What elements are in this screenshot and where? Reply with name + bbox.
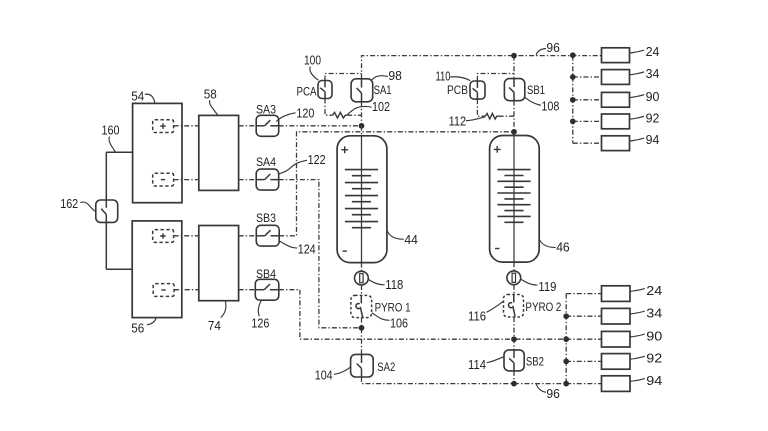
junction bottom SB2 — [511, 381, 517, 387]
wire row1 54+ to 58 — [174, 125, 199, 127]
wire — [105, 214, 107, 269]
wire battery 44 to sensor 118 — [361, 263, 363, 272]
label 54 — [145, 94, 155, 103]
svg-text:74: 74 — [208, 319, 221, 333]
wire node to battery 44 — [361, 126, 363, 136]
wire PYRO 1 to SA2 — [361, 318, 363, 355]
svg-text:160: 160 — [102, 124, 120, 138]
label 119 — [521, 279, 538, 285]
junction bottom manifold — [563, 381, 569, 387]
label 90 top — [630, 95, 645, 98]
switch SA4 — [256, 169, 279, 190]
fuse 102 — [333, 112, 348, 118]
label 110 — [450, 77, 470, 81]
label 118 — [368, 279, 384, 284]
junction top manifold — [570, 97, 576, 103]
label 98 — [372, 76, 388, 80]
label 108 — [525, 98, 541, 106]
svg-text:44: 44 — [404, 233, 418, 247]
box 58 — [199, 115, 239, 190]
svg-text:98: 98 — [388, 69, 402, 83]
switch SA3 — [256, 115, 279, 136]
svg-text:124: 124 — [298, 242, 316, 256]
svg-text:54: 54 — [131, 89, 144, 103]
svg-text:162: 162 — [60, 197, 78, 211]
label 100 — [310, 67, 319, 81]
junction row2 node — [359, 325, 365, 331]
label 46 — [539, 238, 556, 247]
wire PCA bottom lead — [325, 99, 333, 116]
wire row4 56- to 74 — [174, 289, 199, 291]
load box 34 top — [602, 70, 630, 85]
svg-text:114: 114 — [468, 358, 486, 372]
svg-text:108: 108 — [541, 99, 559, 113]
wire branch to load 24 bottom — [566, 293, 601, 295]
switch PCB — [470, 81, 485, 99]
label 102 — [347, 106, 371, 114]
box 74 — [199, 226, 239, 301]
wire SA2 to bottom bus — [362, 377, 567, 384]
svg-text:SA1: SA1 — [374, 83, 392, 97]
svg-text:90: 90 — [646, 329, 662, 343]
wire sensor 118 to PYRO 1 — [361, 285, 363, 295]
svg-text:SA4: SA4 — [256, 155, 276, 169]
wire fuse 112 to SB1 — [499, 115, 514, 117]
label 92 top — [630, 116, 645, 119]
switch SB1 — [504, 79, 524, 101]
terminal + of 56 — [153, 230, 174, 243]
label 92 bottom — [630, 356, 645, 359]
switch SA2 — [351, 354, 374, 377]
svg-text:46: 46 — [556, 240, 570, 254]
load box 90 bottom — [602, 331, 631, 347]
wire — [106, 151, 132, 153]
svg-text:SA2: SA2 — [377, 360, 395, 374]
label 96 top — [536, 49, 546, 56]
wire row3 74 to SB3 — [239, 235, 257, 237]
wire row3 56+ to 74 — [174, 235, 199, 237]
wire branch to load 94 top — [573, 142, 602, 144]
svg-text:PYRO 1: PYRO 1 — [375, 301, 411, 314]
svg-text:SA3: SA3 — [256, 102, 276, 116]
wire row2 SA4 to battery 44 bottom node — [279, 180, 362, 328]
wire top manifold — [572, 56, 574, 144]
wire 96 top — [362, 56, 602, 79]
label 96 bottom — [536, 384, 546, 392]
svg-text:100: 100 — [304, 53, 321, 67]
wire row1 SA3 to battery 44 node — [279, 125, 362, 127]
svg-text:122: 122 — [308, 153, 326, 167]
pyro fuse PYRO 1 — [351, 295, 372, 317]
label 94 top — [630, 138, 645, 141]
svg-text:94: 94 — [646, 374, 662, 388]
box 56 — [132, 221, 182, 318]
label 114 — [487, 357, 504, 363]
wire PCB bottom lead — [477, 99, 485, 116]
wire branch to load 34 bottom — [566, 315, 601, 317]
wire row3 SB3 to battery 46 top node — [279, 132, 514, 236]
wire row4 SB4 to manifold — [279, 290, 566, 340]
junction battery 46 bottom — [511, 336, 517, 342]
label 126 — [258, 300, 261, 316]
wire SB2 to bottom bus — [513, 371, 515, 384]
wire branch to load 92 top — [573, 120, 602, 122]
sensor 119 — [507, 271, 521, 285]
junction battery 46 top — [511, 129, 517, 135]
battery 44 — [337, 136, 387, 263]
terminal - of 56 — [153, 284, 174, 297]
svg-text:120: 120 — [296, 107, 314, 121]
wire bottom manifold — [565, 294, 567, 384]
wire PCB top lead — [477, 74, 514, 82]
load box 24 top — [602, 48, 630, 63]
wire fuse 102 to SA1 — [347, 114, 361, 116]
switch SB3 — [256, 225, 279, 246]
wire branch to load 90 bottom — [566, 338, 601, 340]
svg-text:24: 24 — [646, 45, 660, 59]
svg-text:110: 110 — [436, 69, 451, 83]
label 24 top — [630, 50, 645, 53]
svg-text:PCA: PCA — [297, 85, 317, 99]
switch SA1 — [351, 79, 373, 102]
wire SA1 to battery 44 — [361, 102, 363, 126]
svg-text:PYRO 2: PYRO 2 — [525, 301, 561, 314]
svg-text:112: 112 — [449, 114, 467, 128]
wire — [105, 152, 107, 208]
box 54 — [133, 103, 182, 202]
wire PYRO 2 to SB2 — [513, 317, 515, 350]
junction battery 44 top — [359, 123, 365, 129]
svg-text:102: 102 — [372, 100, 390, 114]
junction bottom manifold — [563, 313, 569, 319]
label 120 — [276, 113, 295, 122]
wire battery 46 to sensor 119 — [513, 262, 515, 271]
svg-text:106: 106 — [390, 317, 408, 331]
wire branch to load 90 top — [573, 99, 602, 101]
junction 96 SB1 — [511, 53, 517, 59]
svg-text:SB2: SB2 — [526, 355, 544, 369]
node 160 label — [109, 137, 115, 152]
svg-text:58: 58 — [204, 88, 217, 102]
svg-text:SB1: SB1 — [527, 83, 545, 97]
svg-text:92: 92 — [646, 352, 662, 366]
label 24 bottom — [630, 288, 645, 291]
svg-text:96: 96 — [546, 387, 560, 401]
label 34 top — [630, 72, 645, 75]
svg-text:92: 92 — [646, 111, 660, 125]
label 74 — [221, 301, 226, 318]
load box 34 bottom — [602, 308, 631, 324]
wire row4 74 to SB4 — [239, 289, 256, 291]
svg-text:56: 56 — [131, 322, 144, 336]
switch PCA — [318, 81, 332, 99]
label 112 — [466, 117, 485, 121]
wire row2 54- to 58 — [174, 179, 199, 181]
wire branch to load 34 top — [573, 76, 602, 78]
battery 46 — [490, 136, 540, 263]
svg-text:34: 34 — [646, 67, 660, 81]
label 124 — [280, 241, 297, 248]
wire SB1 top — [513, 56, 515, 79]
label 34 bottom — [630, 311, 645, 314]
label 56 — [147, 318, 156, 325]
wire node to battery 46 — [513, 132, 515, 136]
switch SB2 — [504, 350, 524, 371]
svg-text:126: 126 — [251, 316, 269, 330]
label 116 — [487, 301, 504, 312]
wire branch to load 94 bottom — [566, 383, 601, 385]
junction bottom manifold — [563, 336, 569, 342]
load box 94 top — [602, 136, 630, 151]
wire row1 58 to SA3 — [239, 125, 257, 127]
load box 92 top — [602, 114, 630, 129]
label 94 bottom — [630, 378, 645, 381]
load box 90 top — [602, 92, 630, 107]
svg-text:118: 118 — [385, 278, 403, 292]
svg-text:SB3: SB3 — [256, 211, 276, 225]
svg-text:116: 116 — [468, 309, 486, 323]
label 90 bottom — [630, 334, 645, 337]
wire SB1 to battery 46 — [513, 101, 515, 132]
switch 162 — [96, 200, 118, 222]
terminal - of 54 — [153, 173, 174, 186]
label 122 — [279, 160, 307, 174]
load box 92 bottom — [602, 354, 631, 370]
label 162 — [80, 202, 95, 211]
junction top manifold — [570, 74, 576, 80]
pyro fuse PYRO 2 — [504, 295, 524, 318]
label 104 — [334, 367, 350, 374]
svg-text:104: 104 — [315, 369, 333, 383]
label 58 — [210, 100, 218, 115]
junction bottom manifold — [563, 359, 569, 365]
svg-text:PCB: PCB — [447, 83, 468, 97]
wire — [106, 268, 132, 270]
junction top manifold — [570, 119, 576, 125]
terminal + of 54 — [153, 120, 174, 133]
load box 94 bottom — [602, 376, 631, 392]
label 106 — [372, 313, 390, 321]
svg-text:96: 96 — [546, 41, 560, 55]
svg-text:SB4: SB4 — [256, 267, 276, 281]
load box 24 bottom — [602, 286, 631, 302]
svg-text:119: 119 — [538, 280, 556, 294]
wire sensor 119 to PYRO 2 — [513, 285, 515, 295]
wire branch to load 92 bottom — [566, 360, 601, 362]
switch SB4 — [255, 279, 278, 300]
junction top manifold — [570, 52, 576, 58]
svg-text:34: 34 — [646, 306, 662, 320]
svg-text:94: 94 — [646, 133, 660, 147]
sensor 118 — [355, 271, 369, 285]
wire row2 58 to SA4 — [239, 179, 257, 181]
label 44 — [387, 230, 404, 239]
wire PCA top lead — [325, 74, 362, 81]
fuse 112 — [485, 113, 498, 119]
svg-text:24: 24 — [646, 284, 662, 298]
svg-text:90: 90 — [646, 90, 660, 104]
